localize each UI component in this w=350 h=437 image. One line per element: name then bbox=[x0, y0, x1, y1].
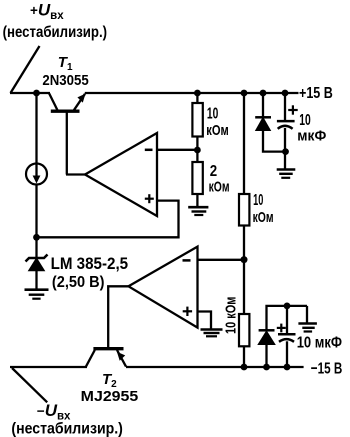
svg-text:кОм: кОм bbox=[253, 209, 274, 226]
transistor Q2 emitter with arrow bbox=[117, 350, 126, 367]
op-amp U2 plus sign bbox=[183, 310, 192, 312]
resistor R2 2k body bbox=[192, 162, 202, 194]
wire left column below current source bbox=[35, 185, 37, 238]
node rail-R4 junction bbox=[241, 364, 248, 371]
transistor Q1 collector bbox=[49, 94, 57, 111]
wire top rail left segment bbox=[10, 92, 50, 94]
svg-text:10 кОм: 10 кОм bbox=[223, 297, 240, 334]
diode D1 anode lead bbox=[263, 130, 285, 151]
capacitor C2 top lead bbox=[286, 306, 288, 334]
capacitor C2 bottom lead bbox=[286, 341, 288, 367]
svg-text:мкФ: мкФ bbox=[297, 128, 326, 145]
zener VD1 cathode bar with ticks bbox=[26, 255, 48, 262]
ground below VD1 bbox=[25, 288, 49, 291]
diode D2 anode lead bbox=[265, 344, 267, 367]
wire U1 output to Q1 base bbox=[66, 173, 85, 175]
svg-text:MJ2955: MJ2955 bbox=[81, 388, 139, 405]
capacitor C1 plus plate bbox=[277, 120, 295, 123]
svg-text:2: 2 bbox=[210, 163, 217, 180]
wire ground stem G3 bbox=[306, 306, 308, 323]
wire top rail right segment to +15V bbox=[85, 92, 299, 94]
resistor R1 10k body bbox=[192, 103, 202, 137]
ground below U2 plus input bbox=[201, 328, 223, 331]
svg-text:10: 10 bbox=[299, 112, 311, 129]
node divider midpoint bbox=[241, 256, 248, 263]
svg-text:+Uвх: +Uвх bbox=[30, 1, 64, 23]
capacitor C2 curved plate bbox=[279, 339, 294, 342]
node C1 ground junction bbox=[282, 148, 289, 155]
wire bottom rail right segment to -15V bbox=[126, 366, 304, 368]
op-amp U2 minus sign bbox=[183, 259, 191, 262]
op-amp U1 triangle bbox=[85, 133, 157, 216]
wire Q1 base lead bbox=[66, 113, 68, 175]
wire U2 inverting input to divider bbox=[198, 259, 245, 261]
diode D2 cathode lead bbox=[267, 306, 308, 330]
diode D1 cathode bar bbox=[255, 116, 271, 119]
svg-text:−15 В: −15 В bbox=[311, 360, 343, 377]
transistor Q2 collector bbox=[86, 350, 95, 367]
wire U1 inverting input bbox=[157, 149, 197, 151]
svg-text:2N3055: 2N3055 bbox=[42, 72, 88, 89]
node rail-R3 junction bbox=[241, 90, 248, 97]
svg-text:LM 385-2,5: LM 385-2,5 bbox=[51, 254, 129, 273]
svg-text:(нестабилизир.): (нестабилизир.) bbox=[11, 421, 123, 437]
capacitor C2 plus plate bbox=[278, 333, 296, 336]
resistor R4 10k body bbox=[239, 314, 249, 346]
wire rail to R3 bbox=[243, 93, 245, 194]
capacitor C1 curved plate bbox=[278, 126, 293, 129]
svg-text:T1: T1 bbox=[58, 54, 73, 73]
op-amp U1 minus sign bbox=[145, 149, 153, 152]
ground below R2 bbox=[188, 206, 208, 209]
svg-text:+15 В: +15 В bbox=[299, 85, 333, 102]
node input + junction bbox=[33, 90, 40, 97]
zener VD1 triangle bbox=[29, 259, 44, 271]
current source I1 arrow bbox=[35, 165, 37, 179]
ground right of C2 bbox=[298, 322, 317, 325]
node rail-R1 junction bbox=[194, 90, 201, 97]
svg-text:кОм: кОм bbox=[206, 122, 229, 139]
node reference junction bbox=[33, 234, 40, 241]
ground below C1 bbox=[277, 168, 296, 171]
node C2 ground junction bbox=[284, 303, 291, 310]
resistor R2 bottom lead bbox=[196, 194, 198, 206]
transistor Q1 base bar bbox=[51, 109, 80, 112]
diode D1 triangle bbox=[256, 118, 270, 130]
zener VD1 anode lead bbox=[35, 271, 37, 290]
transistor Q1 emitter with arrow bbox=[74, 94, 85, 111]
wire R4 to -15V rail bbox=[243, 346, 245, 367]
wire input diagonal lead-in bottom bbox=[12, 368, 47, 402]
wire U2 output to Q2 base bbox=[108, 286, 128, 347]
resistor R3 10k body bbox=[239, 194, 249, 226]
svg-text:кОм: кОм bbox=[209, 179, 230, 196]
node rail-D1 junction bbox=[260, 90, 267, 97]
capacitor C1 top lead bbox=[284, 93, 286, 121]
wire U2 non-inverting input to ground bbox=[198, 312, 212, 329]
capacitor C2 plus label bbox=[277, 327, 286, 329]
diode D2 triangle bbox=[259, 332, 275, 345]
wire U1 non-inverting input to reference node bbox=[37, 201, 179, 238]
wire R3 to R4 bbox=[243, 226, 245, 315]
current source I1 circle bbox=[26, 164, 47, 185]
wire left column above current source bbox=[35, 93, 37, 164]
wire input diagonal lead-in bbox=[11, 46, 40, 93]
node rail-C1 junction bbox=[282, 90, 289, 97]
capacitor C1 bottom lead bbox=[284, 128, 286, 169]
op-amp U1 plus sign bbox=[145, 198, 154, 200]
svg-text:(нестабилизир.): (нестабилизир.) bbox=[3, 24, 108, 41]
svg-text:(2,50 В): (2,50 В) bbox=[52, 274, 105, 291]
diode D2 cathode bar bbox=[259, 329, 275, 332]
capacitor C1 plus label bbox=[288, 109, 298, 111]
node rail-C2 junction bbox=[284, 364, 291, 371]
resistor R1 bottom lead bbox=[196, 137, 198, 163]
svg-text:10 мкФ: 10 мкФ bbox=[297, 334, 342, 351]
svg-text:10: 10 bbox=[207, 105, 218, 122]
wire bottom rail left segment bbox=[10, 366, 87, 368]
resistor R1 top lead bbox=[196, 93, 198, 103]
node R1-R2 junction bbox=[194, 147, 201, 154]
svg-text:−Uвх: −Uвх bbox=[37, 401, 71, 423]
svg-text:10: 10 bbox=[253, 192, 263, 209]
op-amp U2 triangle bbox=[129, 247, 198, 328]
zener VD1 LM385 lead bbox=[35, 237, 37, 258]
transistor Q2 base bar bbox=[93, 347, 123, 350]
diode D1 cathode lead bbox=[262, 93, 264, 117]
node rail-D2 junction bbox=[263, 364, 270, 371]
